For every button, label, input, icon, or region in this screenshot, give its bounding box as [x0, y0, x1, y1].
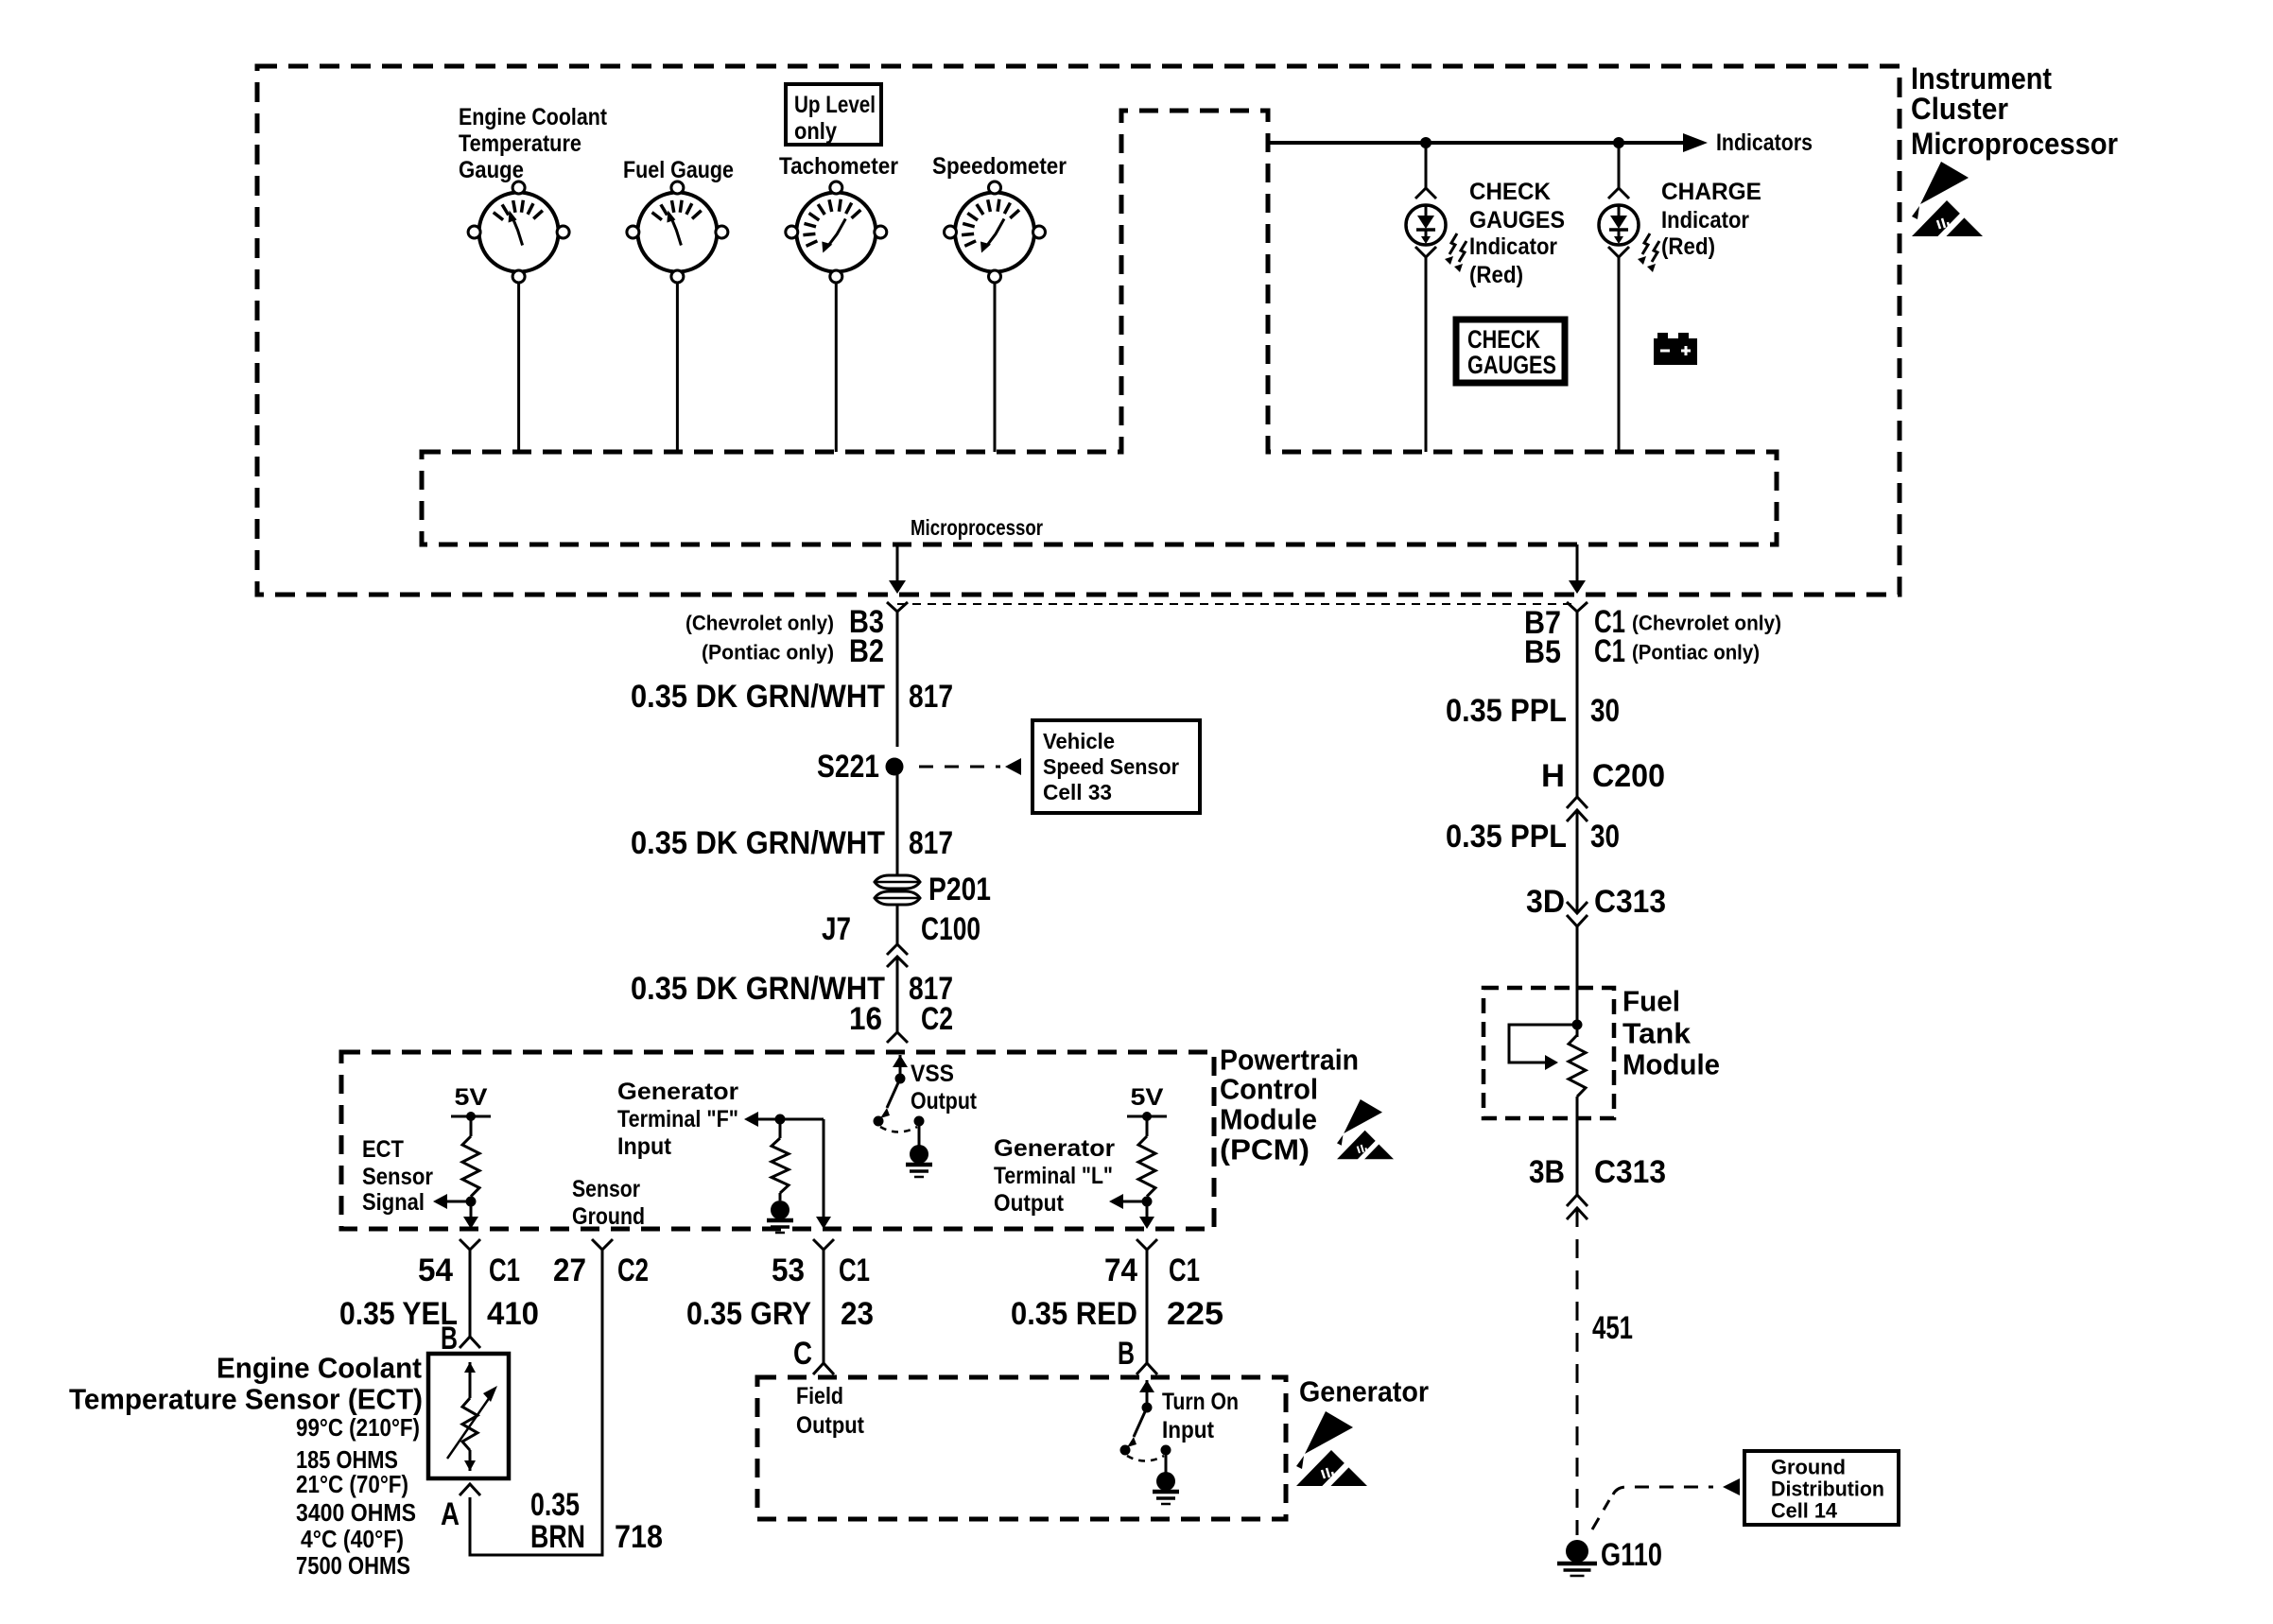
svg-text:Fuel: Fuel [1622, 985, 1680, 1018]
svg-text:Ground: Ground [572, 1203, 645, 1230]
svg-text:GAUGES: GAUGES [1467, 351, 1556, 379]
svg-text:C2: C2 [921, 1001, 953, 1037]
gauge: Fuel Gauge [637, 193, 717, 272]
gauge: Tachometer [796, 193, 876, 272]
svg-text:only: only [794, 118, 837, 145]
wire 30 segment 3 into fuel tank module [1576, 926, 1579, 1037]
svg-text:Temperature Sensor (ECT): Temperature Sensor (ECT) [69, 1383, 423, 1416]
gauge: Speedometer [955, 193, 1034, 272]
wire [1618, 143, 1621, 188]
svg-text:Tachometer: Tachometer [779, 153, 898, 180]
fuel tank module dashed box [1484, 988, 1614, 1118]
wire: microprocessor output to cluster connector [896, 544, 899, 581]
VSS output switch inside PCM [893, 1055, 908, 1067]
splice S221 [886, 758, 904, 776]
resistor (terminal L) [1146, 1116, 1149, 1136]
wire [1425, 143, 1428, 188]
connector C1 pin 54 [460, 1239, 480, 1250]
svg-text:Input: Input [617, 1133, 672, 1160]
svg-text:4°C (40°F): 4°C (40°F) [301, 1525, 404, 1553]
internal ground (terminal F) [771, 1201, 789, 1219]
LED indicator lamp symbol [1599, 205, 1639, 245]
svg-text:Indicator: Indicator [1469, 233, 1557, 260]
connector terminal (top) [1415, 188, 1436, 199]
svg-text:C: C [793, 1336, 812, 1372]
connector C1 pin 74 [1136, 1239, 1157, 1250]
svg-text:Microprocessor: Microprocessor [1911, 127, 2118, 161]
wire 225 (0.35 RED) [1146, 1250, 1149, 1363]
svg-text:Generator: Generator [1299, 1375, 1429, 1408]
ESD sensitive device symbol (generator) [1296, 1411, 1367, 1490]
svg-text:3D: 3D [1526, 884, 1565, 920]
svg-text:Cell 14: Cell 14 [1771, 1499, 1838, 1523]
wire 817 segment 3 [896, 905, 899, 944]
wire 817 segment 1 [896, 612, 899, 747]
svg-text:(Chevrolet only): (Chevrolet only) [1632, 612, 1781, 635]
svg-text:C1: C1 [839, 1253, 870, 1288]
resistor (terminal F) [779, 1119, 782, 1138]
svg-text:B2: B2 [849, 633, 884, 669]
svg-text:Input: Input [1162, 1417, 1215, 1443]
wire 30 segment 1 [1576, 612, 1579, 797]
svg-text:Generator: Generator [994, 1135, 1115, 1162]
generator terminal F input circuit [744, 1112, 758, 1127]
connector terminal (top) [1608, 188, 1629, 199]
wire to pin 54 [470, 1201, 473, 1217]
svg-text:Up Level: Up Level [794, 92, 876, 118]
svg-text:23: 23 [841, 1296, 874, 1332]
svg-text:G110: G110 [1601, 1537, 1662, 1573]
svg-text:0.35 PPL: 0.35 PPL [1446, 819, 1567, 855]
svg-text:Gauge: Gauge [459, 157, 524, 183]
svg-text:Microprocessor: Microprocessor [911, 515, 1043, 540]
wire: microprocessor output to cluster connector (right) [1576, 544, 1579, 581]
connector terminal (bottom) [1608, 247, 1629, 257]
svg-text:Output: Output [994, 1190, 1065, 1217]
svg-text:0.35 RED: 0.35 RED [1011, 1296, 1137, 1332]
Up Level only note box [786, 84, 881, 145]
svg-text:C313: C313 [1594, 884, 1666, 920]
powertrain control module dashed box [341, 1052, 1214, 1229]
junction node (check gauges indicator) [1420, 137, 1431, 148]
generator terminal L output arrow [1122, 1201, 1147, 1203]
svg-text:ECT: ECT [362, 1136, 404, 1163]
svg-text:718: 718 [615, 1519, 663, 1555]
svg-text:54: 54 [418, 1253, 453, 1288]
svg-text:Sensor: Sensor [362, 1164, 433, 1190]
svg-text:C313: C313 [1594, 1154, 1666, 1190]
svg-text:817: 817 [909, 825, 953, 861]
instrument cluster outer dashed box [257, 66, 1900, 595]
svg-text:Temperature: Temperature [459, 130, 581, 157]
svg-text:Turn On: Turn On [1162, 1389, 1239, 1415]
connector pair dashed link line [897, 603, 1577, 605]
svg-text:(Pontiac only): (Pontiac only) [1632, 641, 1760, 665]
svg-text:B: B [441, 1321, 458, 1356]
unnamed ground wire 451 (dashed) [1576, 1208, 1579, 1535]
fuel sender variable resistor [1569, 1035, 1586, 1097]
dashed reference arrow to Vehicle Speed Sensor [919, 766, 1000, 769]
wire 817 segment 4 [896, 957, 899, 1032]
svg-text:CHECK: CHECK [1469, 179, 1551, 205]
svg-text:VSS: VSS [911, 1061, 954, 1087]
wire 30 segment 2 [1576, 810, 1579, 902]
wire 410 (0.35 YEL) [469, 1250, 472, 1337]
svg-text:C2: C2 [617, 1253, 649, 1288]
svg-text:0.35 DK GRN/WHT: 0.35 DK GRN/WHT [631, 679, 885, 715]
svg-text:Engine Coolant: Engine Coolant [217, 1352, 422, 1385]
svg-text:(Red): (Red) [1661, 233, 1715, 260]
svg-text:Engine Coolant: Engine Coolant [459, 104, 608, 130]
svg-text:Generator: Generator [617, 1079, 738, 1105]
wire below fuel tank module [1576, 1098, 1579, 1195]
generator dashed box [757, 1377, 1286, 1519]
svg-text:Sensor: Sensor [572, 1176, 640, 1202]
svg-text:Module: Module [1622, 1048, 1720, 1081]
svg-text:99°C (210°F): 99°C (210°F) [296, 1413, 420, 1442]
svg-text:Output: Output [911, 1088, 978, 1114]
CHECK GAUGES telltale box [1456, 320, 1565, 383]
battery symbol [1654, 338, 1697, 365]
svg-text:Speedometer: Speedometer [932, 153, 1067, 180]
svg-text:P201: P201 [928, 872, 991, 907]
ECT sensor signal arrow [446, 1201, 471, 1203]
svg-text:3400 OHMS: 3400 OHMS [296, 1498, 416, 1527]
wire from speedometer to microprocessor [994, 283, 997, 452]
wire to pin 74 [1146, 1201, 1149, 1217]
svg-text:Powertrain: Powertrain [1220, 1044, 1359, 1077]
svg-text:(PCM): (PCM) [1220, 1133, 1310, 1166]
junction inside fuel tank module [1572, 1020, 1583, 1030]
svg-text:C1: C1 [489, 1253, 520, 1288]
svg-text:410: 410 [487, 1296, 539, 1332]
svg-text:(Red): (Red) [1469, 262, 1523, 288]
svg-text:16: 16 [849, 1001, 882, 1037]
svg-text:B5: B5 [1524, 634, 1561, 670]
microprocessor inner dashed box [422, 111, 1777, 544]
svg-text:53: 53 [772, 1253, 805, 1288]
sensor ground wire 718 [470, 1250, 602, 1555]
svg-text:C1: C1 [1169, 1253, 1200, 1288]
internal ground (generator) [1156, 1472, 1175, 1491]
junction node (charge indicator) [1613, 137, 1624, 148]
note box: Vehicle Speed Sensor Cell 33 [1032, 720, 1200, 813]
grommet P201 [875, 875, 920, 889]
wire from fuel gauge to microprocessor [676, 283, 679, 452]
wire 817 segment 2 [896, 767, 899, 874]
connector terminal (bottom) [1415, 247, 1436, 257]
svg-text:BRN: BRN [530, 1519, 585, 1555]
svg-text:Cell 33: Cell 33 [1043, 780, 1112, 804]
svg-text:225: 225 [1167, 1296, 1223, 1332]
svg-text:Speed Sensor: Speed Sensor [1043, 754, 1179, 779]
svg-text:0.35 PPL: 0.35 PPL [1446, 693, 1567, 729]
svg-text:GAUGES: GAUGES [1469, 207, 1565, 233]
svg-text:Vehicle: Vehicle [1043, 729, 1115, 753]
wire to pin 53 [823, 1119, 825, 1217]
wire from ECT gauge to microprocessor [517, 283, 520, 452]
svg-text:(Pontiac only): (Pontiac only) [702, 641, 834, 665]
LED light arrows [1642, 233, 1650, 254]
svg-text:Field: Field [796, 1383, 843, 1409]
svg-text:3B: 3B [1529, 1154, 1565, 1190]
junction node ECT sensor signal [466, 1197, 477, 1207]
svg-text:Instrument: Instrument [1911, 61, 2052, 95]
svg-text:CHARGE: CHARGE [1661, 179, 1761, 205]
connector C2 pin 27 [592, 1239, 613, 1250]
svg-text:30: 30 [1590, 819, 1620, 855]
svg-text:27: 27 [553, 1253, 586, 1288]
svg-text:C200: C200 [1592, 758, 1665, 794]
junction node terminal L [1142, 1197, 1153, 1207]
svg-text:451: 451 [1592, 1310, 1633, 1346]
svg-text:817: 817 [909, 679, 953, 715]
svg-text:0.35: 0.35 [530, 1487, 580, 1523]
svg-text:C100: C100 [921, 911, 980, 947]
svg-text:J7: J7 [822, 911, 851, 947]
ESD sensitive device symbol (instrument cluster) [1912, 162, 1983, 240]
svg-text:Module: Module [1220, 1103, 1317, 1136]
svg-text:CHECK: CHECK [1467, 325, 1540, 354]
svg-text:5V: 5V [455, 1084, 488, 1111]
svg-text:Terminal "L": Terminal "L" [994, 1163, 1113, 1189]
svg-text:Fuel Gauge: Fuel Gauge [623, 157, 734, 183]
note box: Ground Distribution Cell 14 [1744, 1451, 1899, 1525]
resistor (ECT pull-up) [470, 1116, 473, 1136]
ground G110 [1566, 1540, 1588, 1563]
connector C1 terminal (cluster side, right) [1567, 602, 1588, 612]
svg-text:0.35 DK GRN/WHT: 0.35 DK GRN/WHT [631, 825, 885, 861]
wire from tachometer to microprocessor [835, 283, 838, 452]
svg-text:Output: Output [796, 1412, 865, 1439]
svg-text:Signal: Signal [362, 1189, 425, 1216]
internal ground (VSS) [910, 1145, 928, 1164]
connector C1 pin 53 [813, 1239, 834, 1250]
svg-text:C1: C1 [1594, 633, 1625, 669]
svg-text:Terminal "F": Terminal "F" [617, 1106, 738, 1132]
svg-text:(Chevrolet only): (Chevrolet only) [685, 612, 834, 635]
gauge: Engine Coolant Temperature Gauge [479, 193, 559, 272]
svg-text:B: B [1118, 1336, 1135, 1372]
ESD sensitive device symbol (PCM) [1337, 1099, 1394, 1162]
dashed reference arrow to Ground Distribution [1592, 1500, 1609, 1529]
svg-text:0.35 DK GRN/WHT: 0.35 DK GRN/WHT [631, 971, 885, 1007]
svg-text:21°C (70°F): 21°C (70°F) [296, 1470, 408, 1498]
svg-text:Indicator: Indicator [1661, 207, 1749, 233]
wire [1618, 257, 1621, 452]
turn on input switch [1139, 1380, 1154, 1392]
LED light arrows [1449, 233, 1457, 254]
svg-text:30: 30 [1590, 693, 1620, 729]
svg-text:Control: Control [1220, 1073, 1318, 1106]
LED indicator lamp symbol [1406, 205, 1446, 245]
svg-text:Distribution: Distribution [1771, 1477, 1884, 1501]
svg-text:Indicators: Indicators [1716, 130, 1813, 156]
svg-text:74: 74 [1104, 1253, 1137, 1288]
svg-text:5V: 5V [1131, 1084, 1164, 1111]
svg-text:A: A [441, 1496, 460, 1532]
svg-text:Cluster: Cluster [1911, 92, 2008, 126]
ECT thermistor symbol [464, 1362, 476, 1373]
svg-text:H: H [1541, 758, 1565, 794]
indicators feed wire [1268, 141, 1694, 145]
svg-text:Ground: Ground [1771, 1456, 1846, 1479]
wire [1425, 257, 1428, 452]
wire 23 (0.35 GRY) [823, 1250, 825, 1363]
fuel sender wiper loop [1509, 1025, 1577, 1063]
svg-text:0.35 GRY: 0.35 GRY [686, 1296, 811, 1332]
engine coolant temperature sensor box [428, 1354, 509, 1478]
connector C1 terminal (cluster side, left) [887, 602, 908, 612]
svg-text:Tank: Tank [1622, 1017, 1692, 1050]
svg-text:S221: S221 [817, 749, 879, 785]
svg-text:7500 OHMS: 7500 OHMS [296, 1551, 410, 1580]
